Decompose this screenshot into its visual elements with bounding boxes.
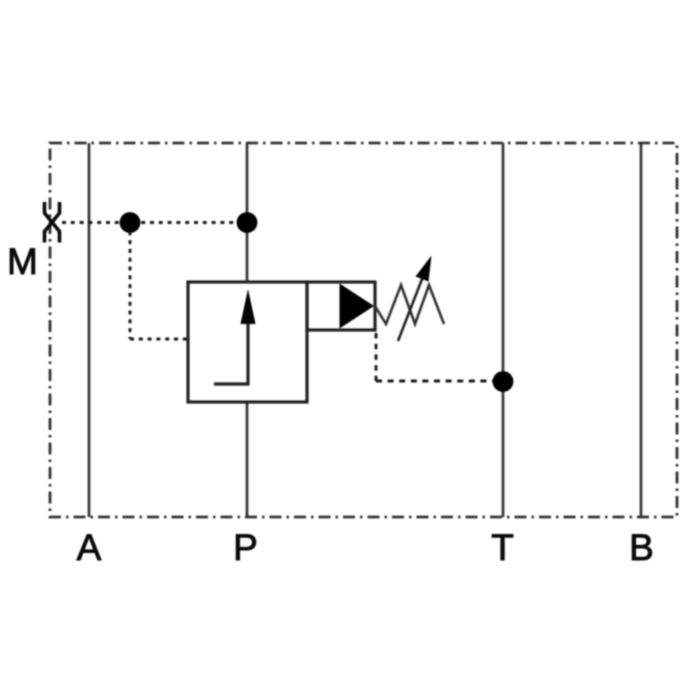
svg-text:A: A [77, 527, 102, 568]
pilot branch into valve (dotted) [130, 338, 188, 341]
port line B [640, 143, 643, 517]
port line T [502, 143, 505, 517]
svg-text:T: T [491, 527, 514, 568]
port line P (lower segment) [246, 401, 249, 517]
poppet flow arrowhead [241, 289, 256, 324]
svg-text:P: P [233, 527, 258, 568]
junction dot on P line [237, 212, 258, 233]
adjustable spring [375, 285, 444, 324]
junction dot on T line [493, 371, 514, 392]
port line A [88, 143, 91, 517]
main valve body [188, 282, 307, 402]
adjustment arrow shaft [398, 278, 422, 341]
junction dot on gauge line [120, 212, 141, 233]
port line P (upper segment) [246, 143, 249, 283]
pilot gauge line M to P (dotted) [62, 221, 247, 224]
adjustment arrowhead [416, 256, 432, 282]
pilot stage box [307, 282, 375, 330]
pilot branch down from junction (dotted) [129, 223, 132, 340]
poppet flow path (stem) [214, 320, 248, 384]
pilot drain down from spring stage (dotted) [375, 333, 378, 381]
pilot drain to T (dotted) [376, 380, 503, 383]
pilot poppet (filled triangle) [340, 284, 375, 329]
svg-text:M: M [7, 241, 38, 282]
svg-text:B: B [629, 527, 654, 568]
measuring port M symbol (closed coupling X) [45, 202, 60, 243]
manifold boundary (dash-dot enclosure) [50, 143, 677, 517]
